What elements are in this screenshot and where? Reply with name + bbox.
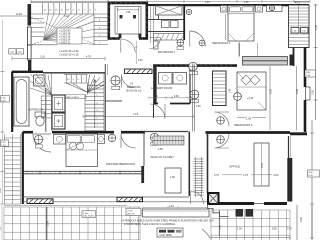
left dim line — [2, 20, 4, 204]
stair note box — [57, 28, 82, 44]
svg-text:4.10: 4.10 — [169, 205, 174, 208]
wc niche wall — [105, 100, 122, 102]
mid closet east — [213, 71, 227, 106]
svg-text:5.50: 5.50 — [46, 220, 50, 226]
SE planter squares — [236, 209, 244, 217]
svg-text:1.04: 1.04 — [237, 228, 242, 231]
symbol circle closet — [150, 133, 158, 141]
hall dim vertical — [135, 41, 138, 64]
elevator door opening — [120, 36, 139, 41]
svg-text:1.06: 1.06 — [244, 2, 249, 4]
bedroom1 west closet hatch — [154, 34, 185, 41]
planter bar west — [27, 199, 53, 204]
bathroom north wall — [12, 71, 43, 73]
svg-text:BEDROOM 1: BEDROOM 1 — [213, 41, 231, 45]
right dim box — [308, 170, 320, 177]
bedroom2 bed — [237, 72, 266, 110]
wc wall — [148, 15, 185, 20]
wc fixtures — [162, 21, 170, 28]
svg-text:1.40: 1.40 — [230, 88, 232, 93]
svg-text:1.66: 1.66 — [153, 96, 158, 98]
svg-text:+1.80/2.12: +1.80/2.12 — [59, 41, 71, 44]
wardrobe bedroom1 — [243, 57, 288, 66]
hall dim line — [83, 115, 194, 117]
svg-text:+0.00 TERR.: +0.00 TERR. — [159, 235, 173, 237]
NE closet — [289, 5, 310, 48]
stair winder mid — [64, 75, 104, 93]
svg-text:3.40: 3.40 — [314, 24, 318, 30]
symbol circle bedroom1 — [186, 9, 192, 15]
nightstand right — [256, 6, 263, 13]
hall beam hatched — [125, 69, 153, 74]
stair left small treads — [31, 19, 57, 45]
master nightstand — [98, 135, 105, 144]
wall hall divider — [193, 65, 195, 132]
dim line under stairs — [12, 58, 105, 60]
AC closet 2 — [52, 113, 65, 129]
svg-text:3.18: 3.18 — [261, 163, 264, 168]
svg-text:1.95: 1.95 — [246, 117, 252, 121]
svg-text:% WOOD DECK TILES 0.60x0.60 %: % WOOD DECK TILES 0.60x0.60 % GUARDRAIL — [124, 223, 176, 226]
svg-text:1.20x: 1.20x — [83, 213, 89, 215]
master west wall — [22, 132, 24, 204]
stair landing note — [59, 49, 79, 57]
svg-text:(9+18.60) m2: (9+18.60) m2 — [126, 89, 142, 93]
duct box — [154, 41, 159, 49]
svg-text:5.80: 5.80 — [272, 228, 277, 231]
laundry room — [153, 65, 156, 105]
wall office south — [211, 202, 254, 205]
svg-text:3.50: 3.50 — [299, 216, 303, 222]
stair tread numbers — [44, 10, 98, 12]
wall west bar top-left — [28, 4, 32, 26]
planter bar mid — [117, 197, 143, 201]
window east — [306, 87, 311, 100]
left edge lower dim — [1, 205, 3, 240]
symbol circle master — [108, 134, 116, 142]
elevator door arc — [121, 39, 136, 53]
svg-text:3.30: 3.30 — [0, 188, 2, 193]
svg-text:4.76: 4.76 — [243, 174, 248, 177]
svg-text:0.60: 0.60 — [174, 96, 179, 98]
wall office east dark — [287, 158, 292, 202]
symbol circle S2 — [190, 90, 199, 99]
master closet door arc — [121, 134, 136, 149]
wall notch west — [28, 60, 31, 72]
wall west bar lower segment — [28, 27, 32, 45]
left dim box 1 — [1, 96, 10, 103]
wall bedroom1 west — [183, 5, 185, 40]
svg-text:7.19: 7.19 — [133, 112, 139, 116]
bedroom1 dim line — [225, 14, 227, 40]
office desk — [254, 143, 269, 186]
svg-text:MASTER BEDROOM: MASTER BEDROOM — [106, 162, 135, 166]
laundry door arc — [150, 104, 165, 119]
stair upper flight treads — [31, 3, 108, 14]
top dim line stairs — [31, 0, 108, 2]
door arc hall-closet — [215, 112, 230, 127]
bedroom2 dims — [270, 66, 297, 130]
top dim row — [108, 0, 310, 2]
stair arrow — [94, 80, 97, 129]
symbol circle master door — [35, 135, 43, 143]
svg-text:3.30: 3.30 — [295, 88, 299, 94]
svg-text:1.98: 1.98 — [170, 176, 175, 179]
svg-text:1.06: 1.06 — [196, 106, 201, 108]
svg-text:+0.00: +0.00 — [127, 210, 133, 212]
symbol circle S3 — [217, 117, 225, 125]
svg-text:1.96: 1.96 — [126, 11, 131, 14]
svg-text:4.78: 4.78 — [86, 56, 91, 59]
AC closet 1 — [52, 95, 65, 112]
hall wall x105 — [104, 64, 106, 131]
niche lines right of elevator — [151, 5, 154, 43]
svg-text:0.60 TILES: 0.60 TILES — [83, 216, 94, 218]
dresser — [267, 6, 283, 12]
leader curve — [202, 229, 210, 238]
wall stub east of wardrobe — [290, 55, 295, 66]
symbol circle S4 — [217, 136, 225, 144]
master door arc — [33, 134, 51, 152]
dim vertical mid terrace — [46, 207, 48, 240]
svg-text:% PERGOLA WOOD SLATS OVER STEE: % PERGOLA WOOD SLATS OVER STEEL FRAME % … — [122, 220, 214, 223]
hall WC circle symbol — [111, 76, 120, 85]
wc counter sink — [156, 6, 183, 15]
washer dryer — [159, 73, 173, 85]
svg-text:0.70: 0.70 — [287, 228, 292, 231]
corridor door arc — [191, 191, 204, 204]
svg-text:+1.50/2.30 +0.25: +1.50/2.30 +0.25 — [59, 53, 79, 57]
top wall — [147, 4, 309, 6]
stair right numbers — [99, 20, 101, 45]
symbol circle bed2 — [234, 93, 242, 101]
elevator dim 1.96 — [118, 8, 139, 11]
elevator car — [115, 7, 141, 35]
wall east bedroom2 — [304, 48, 307, 88]
AC text — [66, 95, 87, 99]
master bed — [66, 134, 98, 167]
right dim line — [315, 4, 317, 120]
stair lower left column fan — [30, 73, 52, 131]
wall bedroom1 south — [153, 64, 237, 67]
left dim box 2 — [1, 140, 9, 147]
svg-text:5.02: 5.02 — [64, 15, 69, 18]
bathroom door arc — [150, 38, 161, 49]
svg-text:+1.20/2.60 +0.20: +1.20/2.60 +0.20 — [59, 49, 79, 53]
dresser marker circle — [269, 5, 274, 10]
pillows — [230, 7, 241, 12]
terrace label box SW — [82, 211, 96, 218]
elevator wall hatch — [108, 2, 148, 40]
svg-text:5.00: 5.00 — [274, 174, 279, 177]
walkin hanger hatch — [153, 136, 184, 145]
right mid text box — [305, 70, 316, 77]
symbol circle b1 door — [199, 40, 205, 46]
elevator shaft — [109, 3, 147, 39]
exterior stair ladder west — [4, 134, 20, 204]
svg-text:5.46: 5.46 — [138, 60, 143, 62]
stair right down flight — [94, 14, 108, 45]
nook wall vertical — [141, 166, 144, 183]
master nightstand west — [54, 135, 66, 145]
right lower dims — [297, 205, 312, 240]
pergola planter rect — [142, 209, 209, 217]
symbol circle S1 — [189, 62, 198, 71]
bed foot wall line — [238, 43, 240, 57]
walkin closet top wall — [144, 131, 188, 133]
stair flight down — [85, 73, 104, 131]
symbol circle bath1 — [177, 39, 184, 46]
wall right closet top jog — [304, 47, 310, 49]
svg-text:LAUNDRY ROOM: LAUNDRY ROOM — [151, 86, 172, 90]
corridor walls — [188, 132, 190, 197]
bedroom1 bed — [228, 6, 254, 42]
svg-text:3.30: 3.30 — [311, 89, 315, 95]
svg-text:DET 02: DET 02 — [127, 214, 135, 216]
bathtub — [14, 77, 29, 126]
column SE — [208, 193, 219, 204]
bottom note box — [157, 228, 183, 237]
closet boxes — [291, 28, 299, 34]
nook bench — [165, 168, 181, 193]
wall east jog office — [290, 132, 307, 135]
svg-text:3.30: 3.30 — [268, 88, 272, 94]
bathroom west wall outer — [11, 72, 13, 133]
wall bedroom2 south — [206, 131, 291, 134]
svg-text:0.20: 0.20 — [16, 12, 22, 16]
tick row mid terrace — [143, 207, 208, 209]
svg-text:AIR CONDIT.: AIR CONDIT. — [66, 96, 79, 99]
svg-text:0.73: 0.73 — [214, 174, 219, 177]
nightstand left — [221, 6, 228, 13]
terrace wall — [23, 196, 189, 198]
dim line y16 — [0, 15, 28, 17]
door arc hall-office — [215, 134, 230, 148]
bath divider — [45, 88, 47, 132]
svg-text:1.30: 1.30 — [40, 56, 45, 59]
tile grid SE terrace — [211, 210, 290, 240]
hall WC door arc — [122, 75, 135, 88]
svg-text:WALK-IN CLOSET: WALK-IN CLOSET — [151, 155, 175, 159]
small note box mid — [126, 208, 141, 215]
svg-text:2.05: 2.05 — [205, 2, 210, 4]
elevator jamb marks — [120, 15, 123, 18]
sink bath — [34, 75, 46, 86]
svg-text:BATHROOM 1: BATHROOM 1 — [158, 50, 176, 54]
svg-text:BEDROOM 2: BEDROOM 2 — [235, 123, 253, 127]
steps below column — [208, 204, 229, 217]
stair winder fan — [31, 14, 94, 45]
hall door arc to bedroom1 — [190, 31, 206, 47]
svg-text:BEDROOM: BEDROOM — [127, 85, 140, 89]
dim vertical SE left — [218, 210, 220, 236]
svg-text:2.86: 2.86 — [158, 148, 163, 151]
bedroom label center — [126, 82, 142, 93]
svg-text:+4.46: +4.46 — [247, 97, 254, 100]
laundry dim row — [149, 97, 188, 99]
legend boxes left — [9, 49, 16, 54]
svg-text:OFFICE: OFFICE — [229, 165, 240, 169]
toilet — [35, 112, 45, 117]
master north wall — [52, 131, 114, 134]
tile grid SW terrace — [4, 207, 140, 240]
master south window wall — [23, 170, 142, 172]
corridor shelf rod — [194, 157, 204, 197]
